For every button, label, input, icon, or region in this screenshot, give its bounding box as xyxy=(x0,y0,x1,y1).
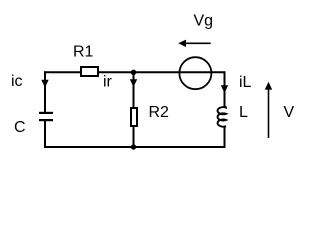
wire right xyxy=(224,71,226,148)
wire middle xyxy=(133,72,135,147)
current arrow iL xyxy=(221,76,228,93)
capacitor C1 xyxy=(39,113,53,120)
source U1 circle xyxy=(179,57,211,89)
svg-text:R1: R1 xyxy=(73,44,94,61)
current arrow Vg xyxy=(178,40,211,47)
node junction top xyxy=(131,70,136,75)
svg-text:V: V xyxy=(284,104,295,121)
current arrow ic xyxy=(41,73,48,88)
wire bottom xyxy=(45,146,225,148)
svg-text:R2: R2 xyxy=(149,104,170,121)
inductor L1 xyxy=(218,107,226,128)
node junction bottom xyxy=(131,144,136,149)
current arrow ir xyxy=(130,75,137,87)
svg-text:C: C xyxy=(14,119,26,136)
resistor R1 xyxy=(81,67,98,76)
wire left xyxy=(44,71,46,148)
voltage arrow V xyxy=(265,82,272,138)
wire top xyxy=(45,71,225,73)
resistor R2 xyxy=(131,108,137,126)
svg-text:L: L xyxy=(239,104,248,121)
svg-text:Vg: Vg xyxy=(194,13,214,30)
svg-text:ir: ir xyxy=(103,74,113,91)
svg-text:iL: iL xyxy=(239,74,252,91)
svg-text:ic: ic xyxy=(11,73,23,90)
